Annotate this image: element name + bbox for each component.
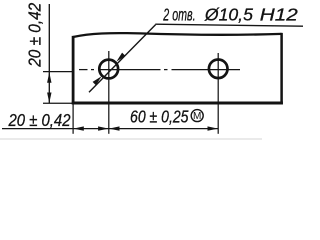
svg-text:M: M [193,111,201,122]
svg-text:20 ± 0,42: 20 ± 0,42 [8,110,71,130]
svg-text:60 ± 0,25: 60 ± 0,25 [130,107,189,127]
svg-text:20 ± 0,42: 20 ± 0,42 [25,3,45,68]
svg-text:Ø10,5: Ø10,5 [204,5,253,25]
svg-text:H12: H12 [260,5,298,25]
svg-text:2 отв.: 2 отв. [163,5,196,25]
